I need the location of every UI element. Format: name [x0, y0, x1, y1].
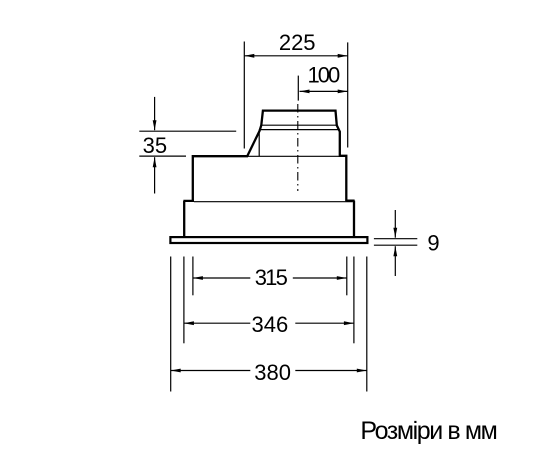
- svg-text:100: 100: [308, 63, 340, 88]
- svg-text:346: 346: [252, 312, 289, 337]
- svg-text:35: 35: [143, 133, 167, 158]
- svg-text:Розміри в мм: Розміри в мм: [360, 417, 496, 445]
- svg-text:225: 225: [279, 30, 316, 55]
- svg-text:380: 380: [254, 360, 291, 385]
- svg-text:315: 315: [255, 265, 288, 290]
- svg-text:9: 9: [427, 231, 439, 256]
